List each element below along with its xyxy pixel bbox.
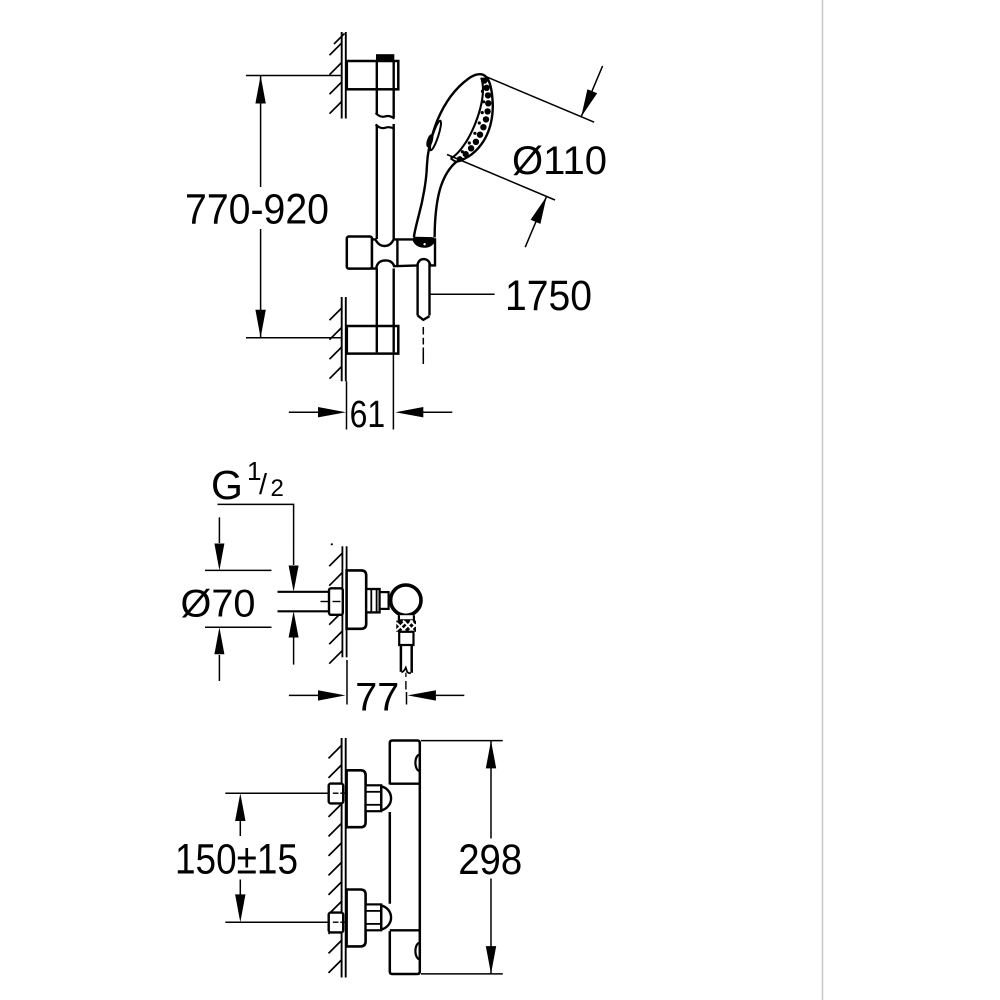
upper union: hex head <box>329 784 344 804</box>
wall upper section <box>342 32 346 119</box>
lower union: threaded nipple <box>366 904 382 930</box>
hose break end <box>402 668 411 674</box>
lower union: dome <box>381 905 391 929</box>
supply pipe <box>278 591 330 593</box>
svg-text:770-920: 770-920 <box>185 185 329 233</box>
glider knob <box>347 237 372 269</box>
spray nozzle dots <box>457 77 492 162</box>
escutcheon plate <box>347 570 367 628</box>
thermostat body: left edge (interrupted by domes) <box>390 741 420 975</box>
glider body <box>372 239 435 268</box>
wall bracket upper <box>347 61 399 89</box>
lower union: hex head <box>329 913 344 933</box>
wall middle section <box>342 546 346 657</box>
page divider line <box>822 0 824 1000</box>
77 right arrowhead <box>408 690 436 700</box>
shower hose <box>416 254 418 316</box>
svg-text:298: 298 <box>458 837 522 884</box>
298 dim line upper <box>490 741 492 839</box>
valve neck <box>380 592 389 609</box>
O70 bottom extension line <box>205 626 272 628</box>
77 left arrowhead <box>318 690 346 700</box>
298 dim line lower <box>490 879 492 974</box>
770-920 bottom arrowhead <box>255 310 265 338</box>
1750 leader line <box>430 293 494 295</box>
O110 upper arrow shaft <box>581 66 602 117</box>
svg-text:150±15: 150±15 <box>175 836 298 884</box>
knurled nut (crosshatch) <box>396 621 416 632</box>
61 left extension line <box>346 381 348 429</box>
rail upper segment <box>376 61 378 114</box>
61 right extension line <box>392 354 394 430</box>
svg-text:1750: 1750 <box>505 272 592 320</box>
union nut <box>366 589 379 612</box>
O70 upper arrowhead (down) <box>214 544 224 571</box>
150 dim line upper <box>239 820 241 836</box>
hose ferrule <box>399 632 413 645</box>
lower union: escutcheon <box>347 890 366 947</box>
handle seat crescent (black) <box>413 237 436 248</box>
svg-text:61: 61 <box>350 394 386 436</box>
svg-text:Ø110: Ø110 <box>512 139 607 183</box>
svg-text:/: / <box>259 469 268 501</box>
O70 top extension line <box>205 569 272 571</box>
G1/2 lower arrowhead (up) <box>289 611 299 637</box>
lower knob arc <box>415 943 419 960</box>
upper knob arc <box>415 755 419 772</box>
150 lower extension/centerline <box>225 921 329 923</box>
770-920 top extension line <box>246 75 341 77</box>
upper union: dome <box>381 786 391 810</box>
298 bottom arrowhead (down) <box>486 946 496 974</box>
valve ball knob <box>391 585 421 615</box>
hand shower button cap <box>426 135 433 147</box>
77 left extension line <box>346 660 348 705</box>
G1/2 upper arrowhead (down) <box>289 566 299 592</box>
wall lower hatching <box>330 308 342 379</box>
61 right arrow shaft <box>423 411 452 413</box>
rail lower segment <box>376 269 378 353</box>
61 left arrow shaft <box>289 411 319 413</box>
hand shower face outer edge <box>456 76 492 161</box>
hose centerline dashes <box>422 327 424 364</box>
svg-text:77: 77 <box>355 676 399 720</box>
svg-text:2: 2 <box>271 475 284 502</box>
wall upper hatching <box>330 34 345 114</box>
61 right arrowhead <box>395 407 423 417</box>
298 top extension <box>421 740 503 742</box>
77 left arrow shaft <box>289 694 319 696</box>
O110 lower tangent line <box>447 155 555 201</box>
hex nut left of wall <box>329 588 343 615</box>
77 right arrow shaft <box>436 694 464 696</box>
wall bottom hatching <box>329 745 342 973</box>
O110 upper tangent line <box>484 76 595 123</box>
collar under ball <box>399 615 414 620</box>
150 lower arrowhead (down) <box>235 894 245 922</box>
upper union: escutcheon <box>347 770 366 827</box>
wall bottom section <box>342 738 346 978</box>
O110 lower arrowhead <box>531 196 547 224</box>
small speck <box>331 543 333 545</box>
770-920 dimension line upper part <box>260 76 262 188</box>
hose lines <box>401 645 412 673</box>
G1/2 arrow shaft lower <box>293 637 295 665</box>
hand shower handle right edge <box>435 162 457 238</box>
face band bottom rim <box>451 158 457 161</box>
150 upper extension/centerline <box>225 792 329 794</box>
wall bracket lower <box>347 326 399 354</box>
body bottom cap line <box>390 929 420 931</box>
pipe centerline dashes <box>321 601 341 603</box>
O70 lower arrowhead (up) <box>214 627 224 654</box>
G1/2 arrow shaft upper <box>293 546 295 565</box>
O110 lower arrow shaft <box>525 196 546 247</box>
svg-text:Ø70: Ø70 <box>181 583 256 626</box>
wall lower section <box>342 297 346 381</box>
O70 lower arrow shaft <box>218 655 220 681</box>
770-920 top arrowhead <box>255 76 265 104</box>
O70 upper arrow shaft <box>218 517 220 543</box>
hand shower face inner edge <box>451 78 483 159</box>
770-920 bottom extension line <box>246 337 341 339</box>
77 right extension line <box>406 692 408 705</box>
hose centerline <box>405 673 407 677</box>
150 dim line lower <box>239 880 241 896</box>
upper union: threaded nipple <box>366 785 382 811</box>
rail break waves <box>376 113 395 119</box>
rail middle segment <box>376 125 378 239</box>
wall middle hatching <box>329 553 342 664</box>
body top cap line <box>390 783 420 785</box>
hose tapered end <box>418 316 430 320</box>
G1/2 leader underline <box>218 504 294 546</box>
770-920 dimension line lower part <box>260 229 262 338</box>
svg-text:G: G <box>211 462 243 508</box>
rail top cap (black) <box>376 54 394 61</box>
hand shower side button <box>428 120 443 151</box>
O110 upper arrowhead <box>581 89 597 117</box>
hand shower head and handle left outline <box>414 74 486 237</box>
150 upper arrowhead (up) <box>235 793 245 821</box>
glider divider line <box>396 239 398 266</box>
298 bottom extension <box>421 973 503 975</box>
61 left arrowhead <box>318 407 346 417</box>
298 top arrowhead (up) <box>486 741 496 769</box>
